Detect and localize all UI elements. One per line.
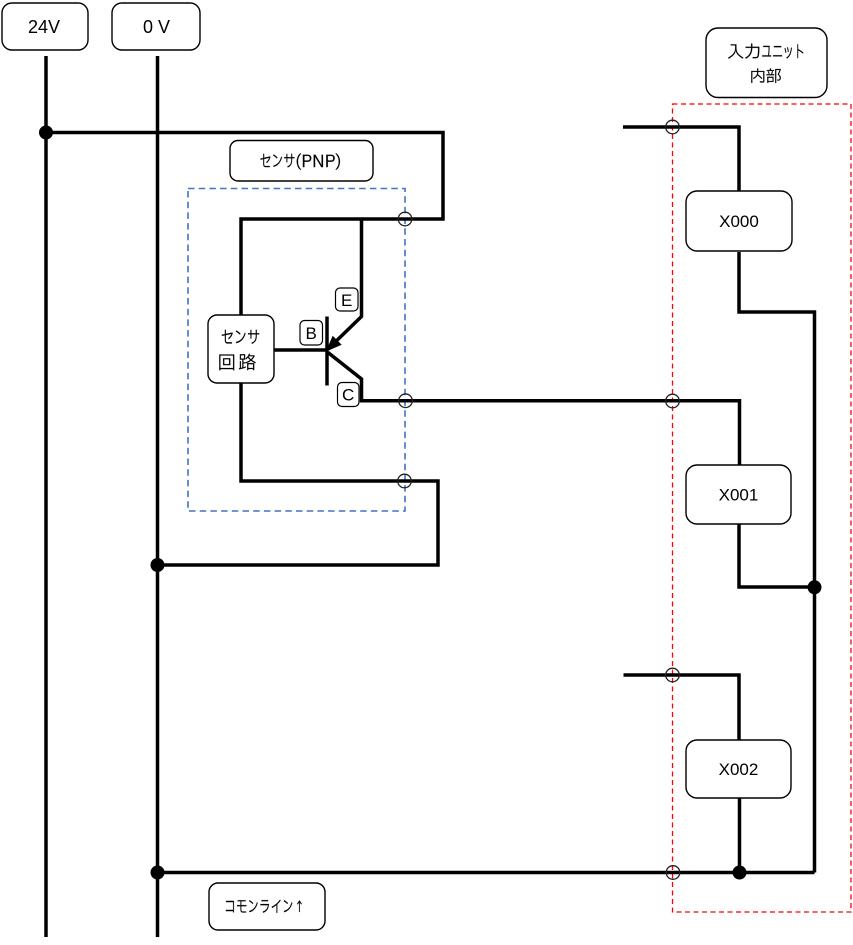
- svg-text:E: E: [341, 291, 352, 310]
- svg-text:X002: X002: [719, 760, 759, 779]
- svg-text:X001: X001: [719, 486, 759, 505]
- svg-text:C: C: [342, 386, 354, 405]
- svg-text:24V: 24V: [28, 17, 60, 37]
- svg-text:B: B: [306, 324, 317, 343]
- svg-text:X000: X000: [719, 212, 759, 231]
- svg-text:0 V: 0 V: [143, 17, 170, 37]
